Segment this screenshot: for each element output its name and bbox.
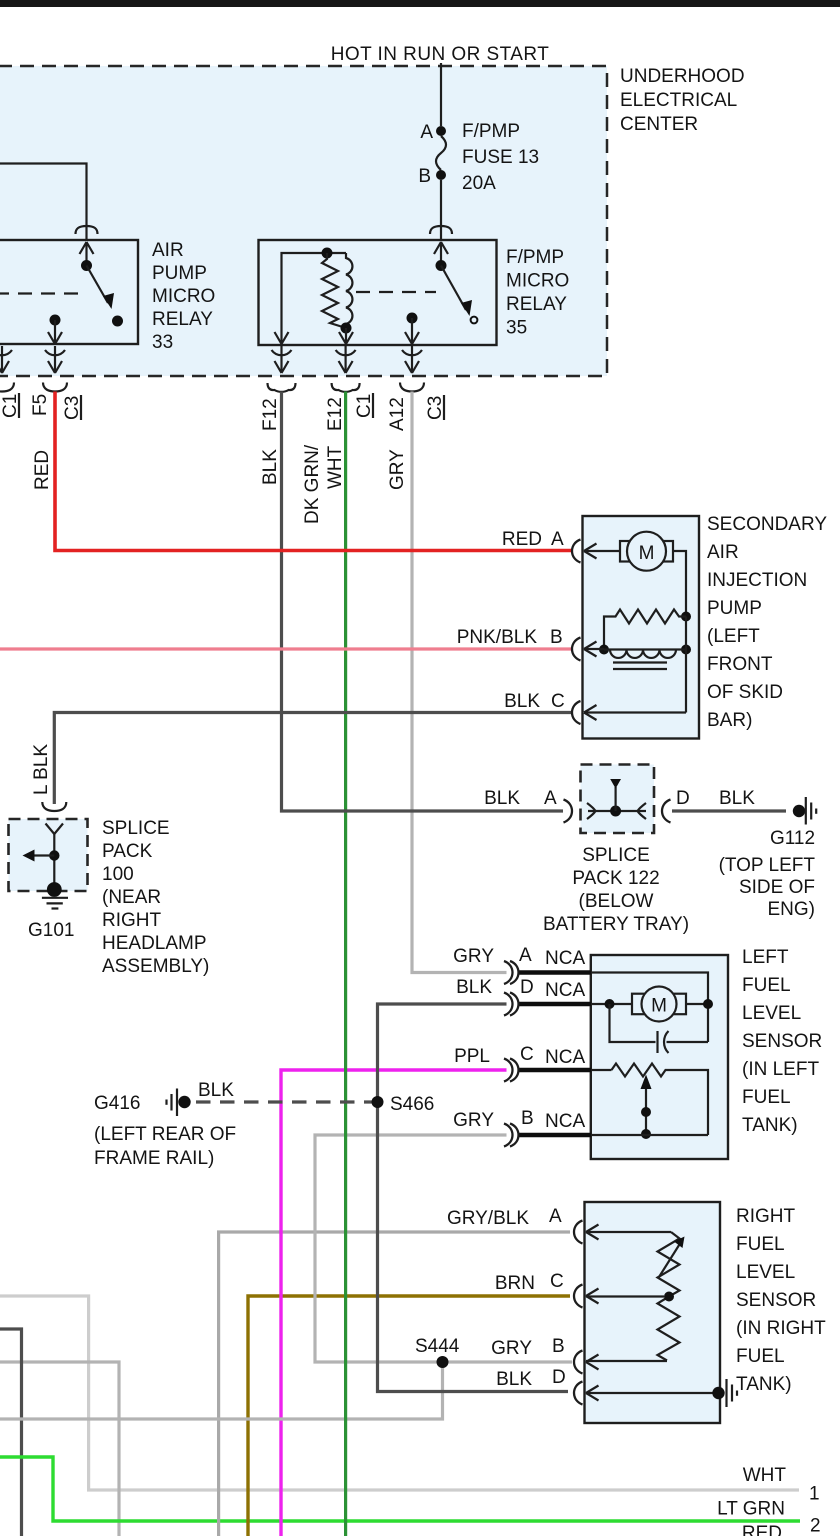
splice pack 100 left branch with arrowhead (33, 854, 54, 856)
connector into SP122 left (564, 800, 573, 823)
fuse F/PMP FUSE 13 20A terminal B (436, 170, 446, 180)
fuse F/PMP FUSE 13 20A terminal A (436, 126, 446, 136)
pump right bus (685, 617, 687, 713)
svg-text:BAR): BAR) (707, 710, 752, 731)
wire DK GRN/WHT E12 (down full page) (344, 392, 347, 1536)
svg-text:INJECTION: INJECTION (707, 570, 807, 591)
svg-text:GRY: GRY (453, 1110, 494, 1131)
splice pack 100 stem (53, 834, 55, 890)
svg-text:C3: C3 (425, 396, 446, 420)
wire BLK splice 122 D to G112 (672, 809, 786, 812)
pump motor lead A (584, 550, 620, 552)
svg-text:(LEFT REAR OF: (LEFT REAR OF (94, 1124, 236, 1145)
left sensor NCA lead A (520, 970, 592, 974)
svg-text:NCA: NCA (545, 1047, 585, 1068)
right sensor connector B cup (574, 1351, 583, 1374)
splice 122 left male arrow (587, 803, 596, 819)
relay U35 box F/PMP MICRO RELAY 35 (259, 240, 497, 345)
svg-text:MICRO: MICRO (506, 271, 569, 292)
svg-text:WHT: WHT (325, 445, 346, 489)
svg-text:33: 33 (152, 332, 173, 353)
svg-text:A: A (544, 788, 557, 809)
left sensor rheostat zigzag (612, 1064, 709, 1136)
relay 35 dashed actuation line (356, 291, 436, 293)
svg-text:F5: F5 (30, 394, 51, 416)
left sensor NCA lead B (520, 1133, 592, 1137)
right sensor lead B (586, 1360, 667, 1362)
svg-text:RED: RED (32, 450, 53, 490)
wire PNK/BLK (left edge to pump B) (0, 647, 571, 650)
right sensor lead A (586, 1231, 671, 1233)
pin chevrons relay33 left pin (0, 346, 424, 392)
svg-text:BLK: BLK (719, 788, 755, 809)
svg-text:RIGHT: RIGHT (102, 910, 162, 931)
svg-text:RED: RED (502, 529, 542, 550)
relay 33 dashed actuation line (0, 292, 81, 294)
left fuel level sensor box (591, 955, 728, 1159)
svg-text:G112: G112 (770, 828, 815, 849)
svg-text:PACK 122: PACK 122 (572, 868, 659, 889)
right sensor pin A arrow (586, 1225, 599, 1240)
right sensor connector C cup (574, 1285, 583, 1308)
svg-text:A: A (519, 945, 532, 966)
svg-text:NCA: NCA (545, 1111, 585, 1132)
svg-text:D: D (676, 788, 690, 809)
relay 35 coil top junction dot (322, 248, 333, 259)
svg-text:GRY: GRY (491, 1338, 532, 1359)
relay 33 switch arm (87, 266, 109, 304)
svg-text:G101: G101 (28, 920, 74, 941)
svg-text:PUMP: PUMP (152, 263, 207, 284)
pump motor right lead (673, 551, 686, 616)
left sensor wiper arrow (645, 1088, 647, 1135)
wire GRY/BLK (right sensor A to bottom) (219, 1232, 570, 1536)
svg-text:RED: RED (742, 1523, 782, 1536)
right sensor rheostat (vertical zigzag) (658, 1232, 680, 1361)
splice pack SP100 dashed box (9, 819, 88, 891)
right sensor pin D arrow (586, 1386, 599, 1401)
ground G112 stud (793, 805, 805, 817)
svg-text:BLK: BLK (456, 977, 492, 998)
svg-text:D: D (552, 1367, 566, 1388)
pump connector A cup (572, 540, 581, 563)
svg-text:A: A (549, 1206, 562, 1227)
pump lead C (584, 711, 686, 713)
pin label C1 (left, underlined) (0, 393, 21, 418)
wire GRY A12 (to left sensor A) (412, 392, 507, 973)
svg-text:CENTER: CENTER (620, 114, 698, 135)
right sensor case ground stud (712, 1387, 724, 1399)
svg-text:SIDE OF: SIDE OF (739, 877, 815, 898)
connector chevrons pin F5 (45, 346, 65, 373)
svg-text:BLK: BLK (504, 691, 540, 712)
right fuel level sensor box (585, 1202, 721, 1423)
svg-text:LT GRN: LT GRN (717, 1499, 785, 1520)
svg-text:A12: A12 (387, 397, 408, 431)
wire BLK pump C to splice pack 100 (54, 713, 571, 805)
pump pin A arrow (584, 544, 597, 559)
left sensor connector B (double arc) (504, 1124, 513, 1147)
svg-text:C1: C1 (354, 394, 375, 418)
svg-text:RELAY: RELAY (506, 294, 567, 315)
right sensor connector A cup (574, 1221, 583, 1244)
wire GRY S444 branch (down then left to edge) (0, 1362, 443, 1419)
relay 35 coil inductor (346, 253, 352, 324)
svg-text:F12: F12 (260, 398, 281, 431)
svg-text:B: B (418, 166, 431, 187)
svg-text:C: C (551, 691, 565, 712)
left sensor wiper dots (641, 1107, 651, 1117)
svg-text:1: 1 (809, 1484, 820, 1505)
pin label C1 (mid, underlined) (354, 393, 375, 418)
right sensor pin C arrow (586, 1289, 599, 1304)
svg-text:FUSE 13: FUSE 13 (462, 147, 539, 168)
svg-text:FUEL: FUEL (736, 1234, 785, 1255)
pump M1 box SECONDARY AIR INJECTION PUMP (583, 516, 700, 739)
UNDERHOOD ELECTRICAL CENTER dashed box (0, 66, 607, 376)
svg-text:M: M (651, 996, 667, 1017)
svg-text:WHT: WHT (743, 1465, 787, 1486)
relay 35 coil top wire (282, 253, 347, 343)
wire BRN (right sensor C to bottom) (248, 1296, 570, 1536)
svg-text:NCA: NCA (545, 948, 585, 969)
svg-text:AIR: AIR (707, 542, 739, 563)
left sensor capacitor branch (610, 1004, 656, 1042)
wire WHT (left edge to bottom right, label 1) (0, 1296, 799, 1490)
svg-text:C3: C3 (62, 396, 83, 420)
svg-text:C: C (550, 1271, 564, 1292)
svg-text:PACK: PACK (102, 841, 153, 862)
svg-text:(LEFT: (LEFT (707, 626, 760, 647)
relay 35 resistor zigzag (322, 253, 346, 328)
svg-text:GRY: GRY (453, 946, 494, 967)
right sensor connector D cup (574, 1382, 583, 1405)
connector cup atop relay 33 (76, 226, 98, 234)
connector chevrons pin E12 (336, 346, 356, 373)
left sensor connector D (double arc) (504, 993, 513, 1016)
svg-text:BLK: BLK (198, 1080, 234, 1101)
svg-text:20A: 20A (462, 173, 496, 194)
pin label C3 (right, underlined) (425, 395, 446, 420)
relay 33 switch pin arrow (80, 242, 94, 265)
svg-text:FUEL: FUEL (742, 975, 791, 996)
right sensor adjust arrow (659, 1242, 681, 1277)
relay 33 pin arrow to box bottom (48, 320, 62, 344)
svg-text:C: C (520, 1044, 534, 1065)
svg-text:PUMP: PUMP (707, 598, 762, 619)
left sensor connector C (double arc) (504, 1059, 513, 1082)
svg-text:(IN RIGHT: (IN RIGHT (736, 1318, 826, 1339)
svg-text:BLK: BLK (496, 1369, 532, 1390)
svg-text:2: 2 (810, 1516, 821, 1536)
svg-text:ELECTRICAL: ELECTRICAL (620, 90, 737, 111)
svg-text:100: 100 (102, 864, 134, 885)
wire RED F5 to pump A (55, 392, 571, 551)
relay U33 box AIR PUMP MICRO RELAY 33 (0, 240, 138, 344)
svg-text:L BLK: L BLK (31, 744, 52, 795)
connector chevrons pin (relay33 far-left C1) (0, 346, 12, 373)
svg-text:SENSOR: SENSOR (736, 1290, 816, 1311)
svg-text:SECONDARY: SECONDARY (707, 514, 827, 535)
svg-text:D: D (520, 977, 534, 998)
wire BLK F12 (to splice pack 122 A) (282, 392, 564, 812)
svg-text:GRY: GRY (387, 449, 408, 490)
pump motor bracket (620, 541, 673, 562)
wire BLK D net (left sensor D down to right sensor D) (378, 1004, 569, 1392)
splice S444 dot (437, 1356, 449, 1368)
svg-text:OF SKID: OF SKID (707, 682, 783, 703)
svg-text:F/PMP: F/PMP (462, 121, 520, 142)
splice pack SP122 dashed box (581, 765, 655, 834)
svg-text:LEFT: LEFT (742, 947, 789, 968)
svg-text:AIR: AIR (152, 240, 184, 261)
pump lead B (584, 648, 604, 650)
svg-text:TANK): TANK) (736, 1374, 792, 1395)
svg-text:SPLICE: SPLICE (582, 845, 650, 866)
svg-text:C1: C1 (0, 394, 21, 418)
left sensor NCA lead C (520, 1068, 592, 1072)
left sensor motor right dot (703, 999, 713, 1009)
pump resistor zigzag (604, 610, 686, 650)
wire GRY B net (left sensor B to right sensor B via S444) (315, 1135, 572, 1362)
svg-text:NCA: NCA (545, 980, 585, 1001)
svg-text:LEVEL: LEVEL (736, 1262, 795, 1283)
right sensor lead D to case ground (586, 1392, 718, 1394)
svg-text:S466: S466 (390, 1094, 434, 1115)
pump pin C arrow (584, 705, 597, 720)
svg-text:S444: S444 (415, 1336, 460, 1357)
svg-text:TANK): TANK) (742, 1115, 798, 1136)
svg-text:SPLICE: SPLICE (102, 818, 170, 839)
svg-text:BLK: BLK (260, 449, 281, 485)
svg-text:(TOP LEFT: (TOP LEFT (719, 855, 816, 876)
connector chevrons pin A12 (402, 346, 422, 373)
svg-text:RIGHT: RIGHT (736, 1206, 796, 1227)
wire from left edge into relay 33 (0, 164, 87, 241)
svg-text:RELAY: RELAY (152, 309, 213, 330)
svg-text:PPL: PPL (454, 1046, 490, 1067)
splice 122 junction dot (610, 806, 621, 817)
pump inductor coil (604, 650, 686, 658)
right sensor lead C (586, 1295, 664, 1297)
splice pack 100 entry chevron (46, 824, 64, 835)
svg-text:HEADLAMP: HEADLAMP (102, 933, 207, 954)
svg-text:GRY/BLK: GRY/BLK (447, 1208, 529, 1229)
svg-text:(BELOW: (BELOW (579, 891, 654, 912)
splice S466 dot (372, 1096, 384, 1108)
relay 35 switch common dot (436, 260, 447, 271)
svg-text:UNDERHOOD: UNDERHOOD (620, 66, 745, 87)
wire from HOT label down to fuse A (440, 63, 442, 126)
svg-text:(NEAR: (NEAR (102, 887, 161, 908)
wire fuse B to relay 35 (440, 180, 442, 240)
svg-text:M: M (639, 543, 655, 564)
left sensor motor bracket (632, 994, 686, 1015)
relay 35 switch pin arrow (from fuse) (434, 242, 448, 265)
svg-text:A: A (551, 529, 564, 550)
svg-text:BLK: BLK (484, 788, 520, 809)
svg-text:F/PMP: F/PMP (506, 247, 564, 268)
connector out of SP122 right (662, 800, 671, 823)
svg-text:B: B (552, 1336, 565, 1357)
svg-text:BATTERY TRAY): BATTERY TRAY) (543, 914, 689, 935)
ground G101 dot (47, 882, 62, 897)
svg-text:BRN: BRN (495, 1273, 535, 1294)
pin label C3 (left, underlined) (62, 395, 83, 420)
pump connector C cup (572, 701, 581, 724)
left sensor motor left dot (605, 999, 615, 1009)
connector chevrons pin F12 (272, 346, 292, 373)
svg-text:SENSOR: SENSOR (742, 1031, 822, 1052)
svg-text:B: B (550, 627, 563, 648)
connector cup into splice pack 100 (42, 802, 66, 811)
relay 35 switch arm (441, 266, 466, 311)
svg-text:G416: G416 (94, 1093, 140, 1114)
fuse element (436, 136, 446, 170)
svg-text:ENG): ENG) (768, 899, 816, 920)
pump inductor core lines (613, 661, 667, 663)
relay 35 switch contact circle (471, 317, 478, 324)
wire PPL (left sensor C to bottom) (281, 1070, 507, 1536)
ground G101 symbol (42, 897, 68, 899)
relay 35 pin arrows to box bottom (339, 328, 353, 344)
pump pin B arrow (584, 642, 597, 657)
svg-text:HOT IN RUN OR START: HOT IN RUN OR START (331, 44, 550, 65)
pump inductor junction dots (599, 645, 609, 655)
relay 33 pin F5 dot (50, 315, 61, 326)
relay 35 coil bottom dot (341, 323, 352, 334)
svg-text:LEVEL: LEVEL (742, 1003, 801, 1024)
svg-text:DK GRN/: DK GRN/ (302, 444, 323, 524)
svg-text:35: 35 (506, 318, 527, 339)
pump motor circle (627, 532, 666, 571)
relay 33 switch common dot (81, 260, 92, 271)
right sensor pin B arrow (586, 1355, 599, 1370)
svg-text:FRAME RAIL): FRAME RAIL) (94, 1148, 214, 1169)
splice 122 upward stub with triangle (614, 787, 616, 811)
pump connector B cup (572, 638, 581, 661)
left sensor motor circle (642, 987, 677, 1022)
connector cup atop relay 35 (430, 226, 452, 234)
svg-text:B: B (521, 1108, 534, 1129)
svg-text:PNK/BLK: PNK/BLK (457, 627, 538, 648)
svg-text:(IN LEFT: (IN LEFT (742, 1059, 819, 1080)
svg-text:FUEL: FUEL (742, 1087, 791, 1108)
svg-text:ASSEMBLY): ASSEMBLY) (102, 956, 209, 977)
splice 122 internal bus (588, 810, 646, 812)
svg-text:FRONT: FRONT (707, 654, 773, 675)
splice pack 100 junction dot (49, 850, 59, 860)
pump resistor junction dot (681, 612, 691, 622)
relay 33 switch contact dot (112, 316, 123, 327)
svg-text:FUEL: FUEL (736, 1346, 785, 1367)
left sensor connector A (double arc) (504, 961, 513, 984)
splice 122 right male arrow (638, 803, 647, 819)
svg-text:MICRO: MICRO (152, 286, 215, 307)
left sensor motor right lead (686, 1003, 708, 1005)
left sensor NCA lead D (520, 1002, 592, 1006)
top black bar (0, 0, 840, 7)
wire BLK (left edge down at x=21.5) (0, 1329, 22, 1536)
right sensor tap dot (664, 1292, 674, 1302)
svg-text:A: A (420, 122, 433, 143)
wire LT GRN (left edge to bottom right, label 2) (0, 1457, 800, 1521)
svg-text:E12: E12 (325, 397, 346, 431)
relay 35 pin A12 dot (407, 313, 418, 324)
wire GRY (left edge down at x=119) (0, 1362, 119, 1536)
wire BLK dashed G416 to S466 (196, 1100, 372, 1103)
